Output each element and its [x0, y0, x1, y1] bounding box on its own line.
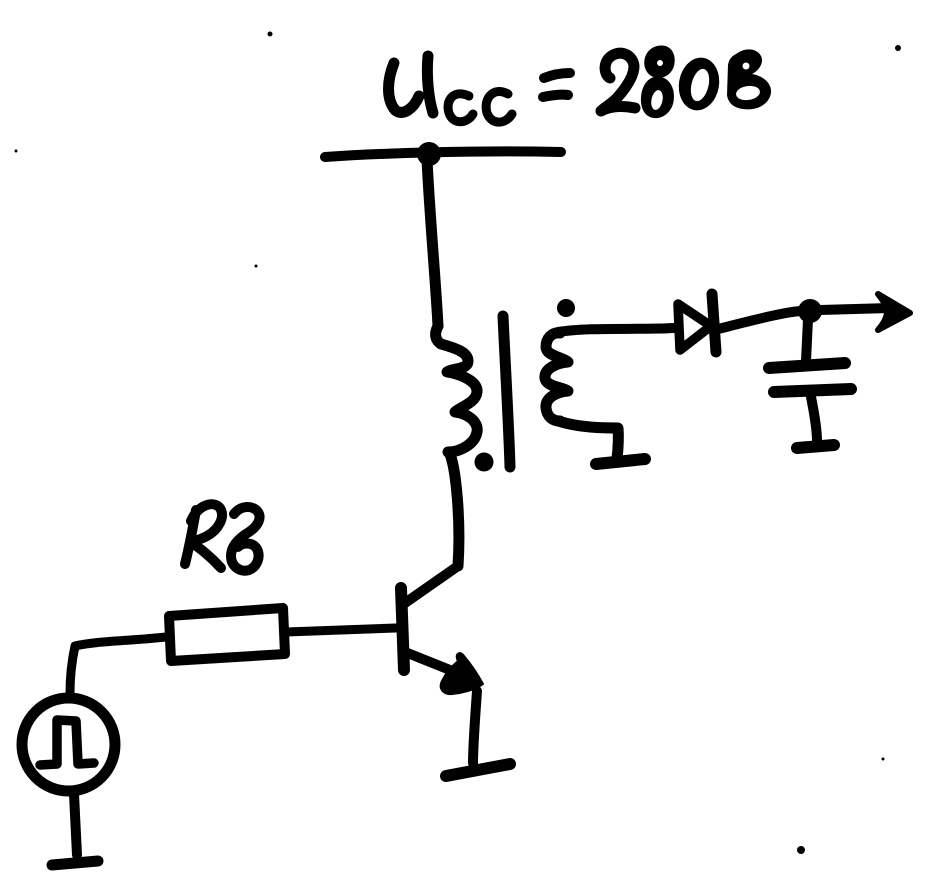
- wire: emitter to ground: [473, 691, 477, 763]
- digit 0: [675, 54, 724, 113]
- wire: node to capacitor: [806, 319, 808, 361]
- label subscript c2: [486, 92, 512, 123]
- speck 1: [268, 32, 273, 37]
- wire: secondary bottom to ground: [558, 421, 618, 459]
- pulse source circle G: [22, 698, 115, 791]
- transformer secondary winding: [545, 333, 568, 421]
- label Ucc = 280B : letter U: [389, 56, 434, 113]
- wire: node to arrow: [820, 308, 892, 310]
- letter B (volts): [727, 49, 771, 109]
- wire: source to resistor: [70, 637, 166, 693]
- speck 3: [15, 150, 18, 153]
- digit 2: [601, 53, 635, 111]
- capacitor top plate: [769, 363, 845, 368]
- wire: collector diagonal: [405, 566, 458, 603]
- wire: capacitor to ground: [811, 397, 817, 441]
- supply rail: [325, 151, 561, 157]
- wire: base to resistor: [286, 628, 396, 632]
- speck 4: [255, 265, 258, 268]
- label R of Rb: [185, 504, 222, 568]
- label delta of Rb: [231, 507, 260, 571]
- secondary polarity dot: [557, 299, 575, 317]
- digit 8 (bold): [644, 45, 674, 77]
- node: rail junction dot: [417, 142, 441, 166]
- resistor Rb body: [169, 608, 285, 661]
- speck 6: [797, 846, 805, 854]
- ground (source): [52, 861, 98, 865]
- ground (emitter): [446, 764, 510, 776]
- transistor emitter: [405, 652, 450, 670]
- speck 5: [882, 758, 885, 761]
- pulse symbol inside source: [40, 720, 94, 765]
- diode VD: [678, 304, 711, 350]
- ground (capacitor): [797, 445, 834, 448]
- primary polarity dot: [475, 453, 494, 472]
- transistor base bar: [401, 588, 404, 670]
- wire: secondary top to diode: [558, 328, 674, 332]
- output arrow head: [878, 294, 910, 330]
- node: output junction dot: [798, 299, 822, 323]
- wire: rail to primary: [427, 160, 438, 326]
- label subscript c1: [448, 94, 473, 122]
- transformer primary winding: [436, 326, 478, 452]
- transformer core: [503, 316, 510, 467]
- wire: diode to output node: [718, 311, 800, 329]
- wire: primary bottom to collector bend: [450, 454, 459, 566]
- emitter arrow head: [441, 653, 483, 694]
- ground (secondary): [596, 459, 645, 464]
- wire: source to ground: [74, 794, 77, 855]
- speck 2: [895, 45, 901, 51]
- capacitor bottom plate: [774, 389, 851, 392]
- equals sign: [544, 73, 570, 78]
